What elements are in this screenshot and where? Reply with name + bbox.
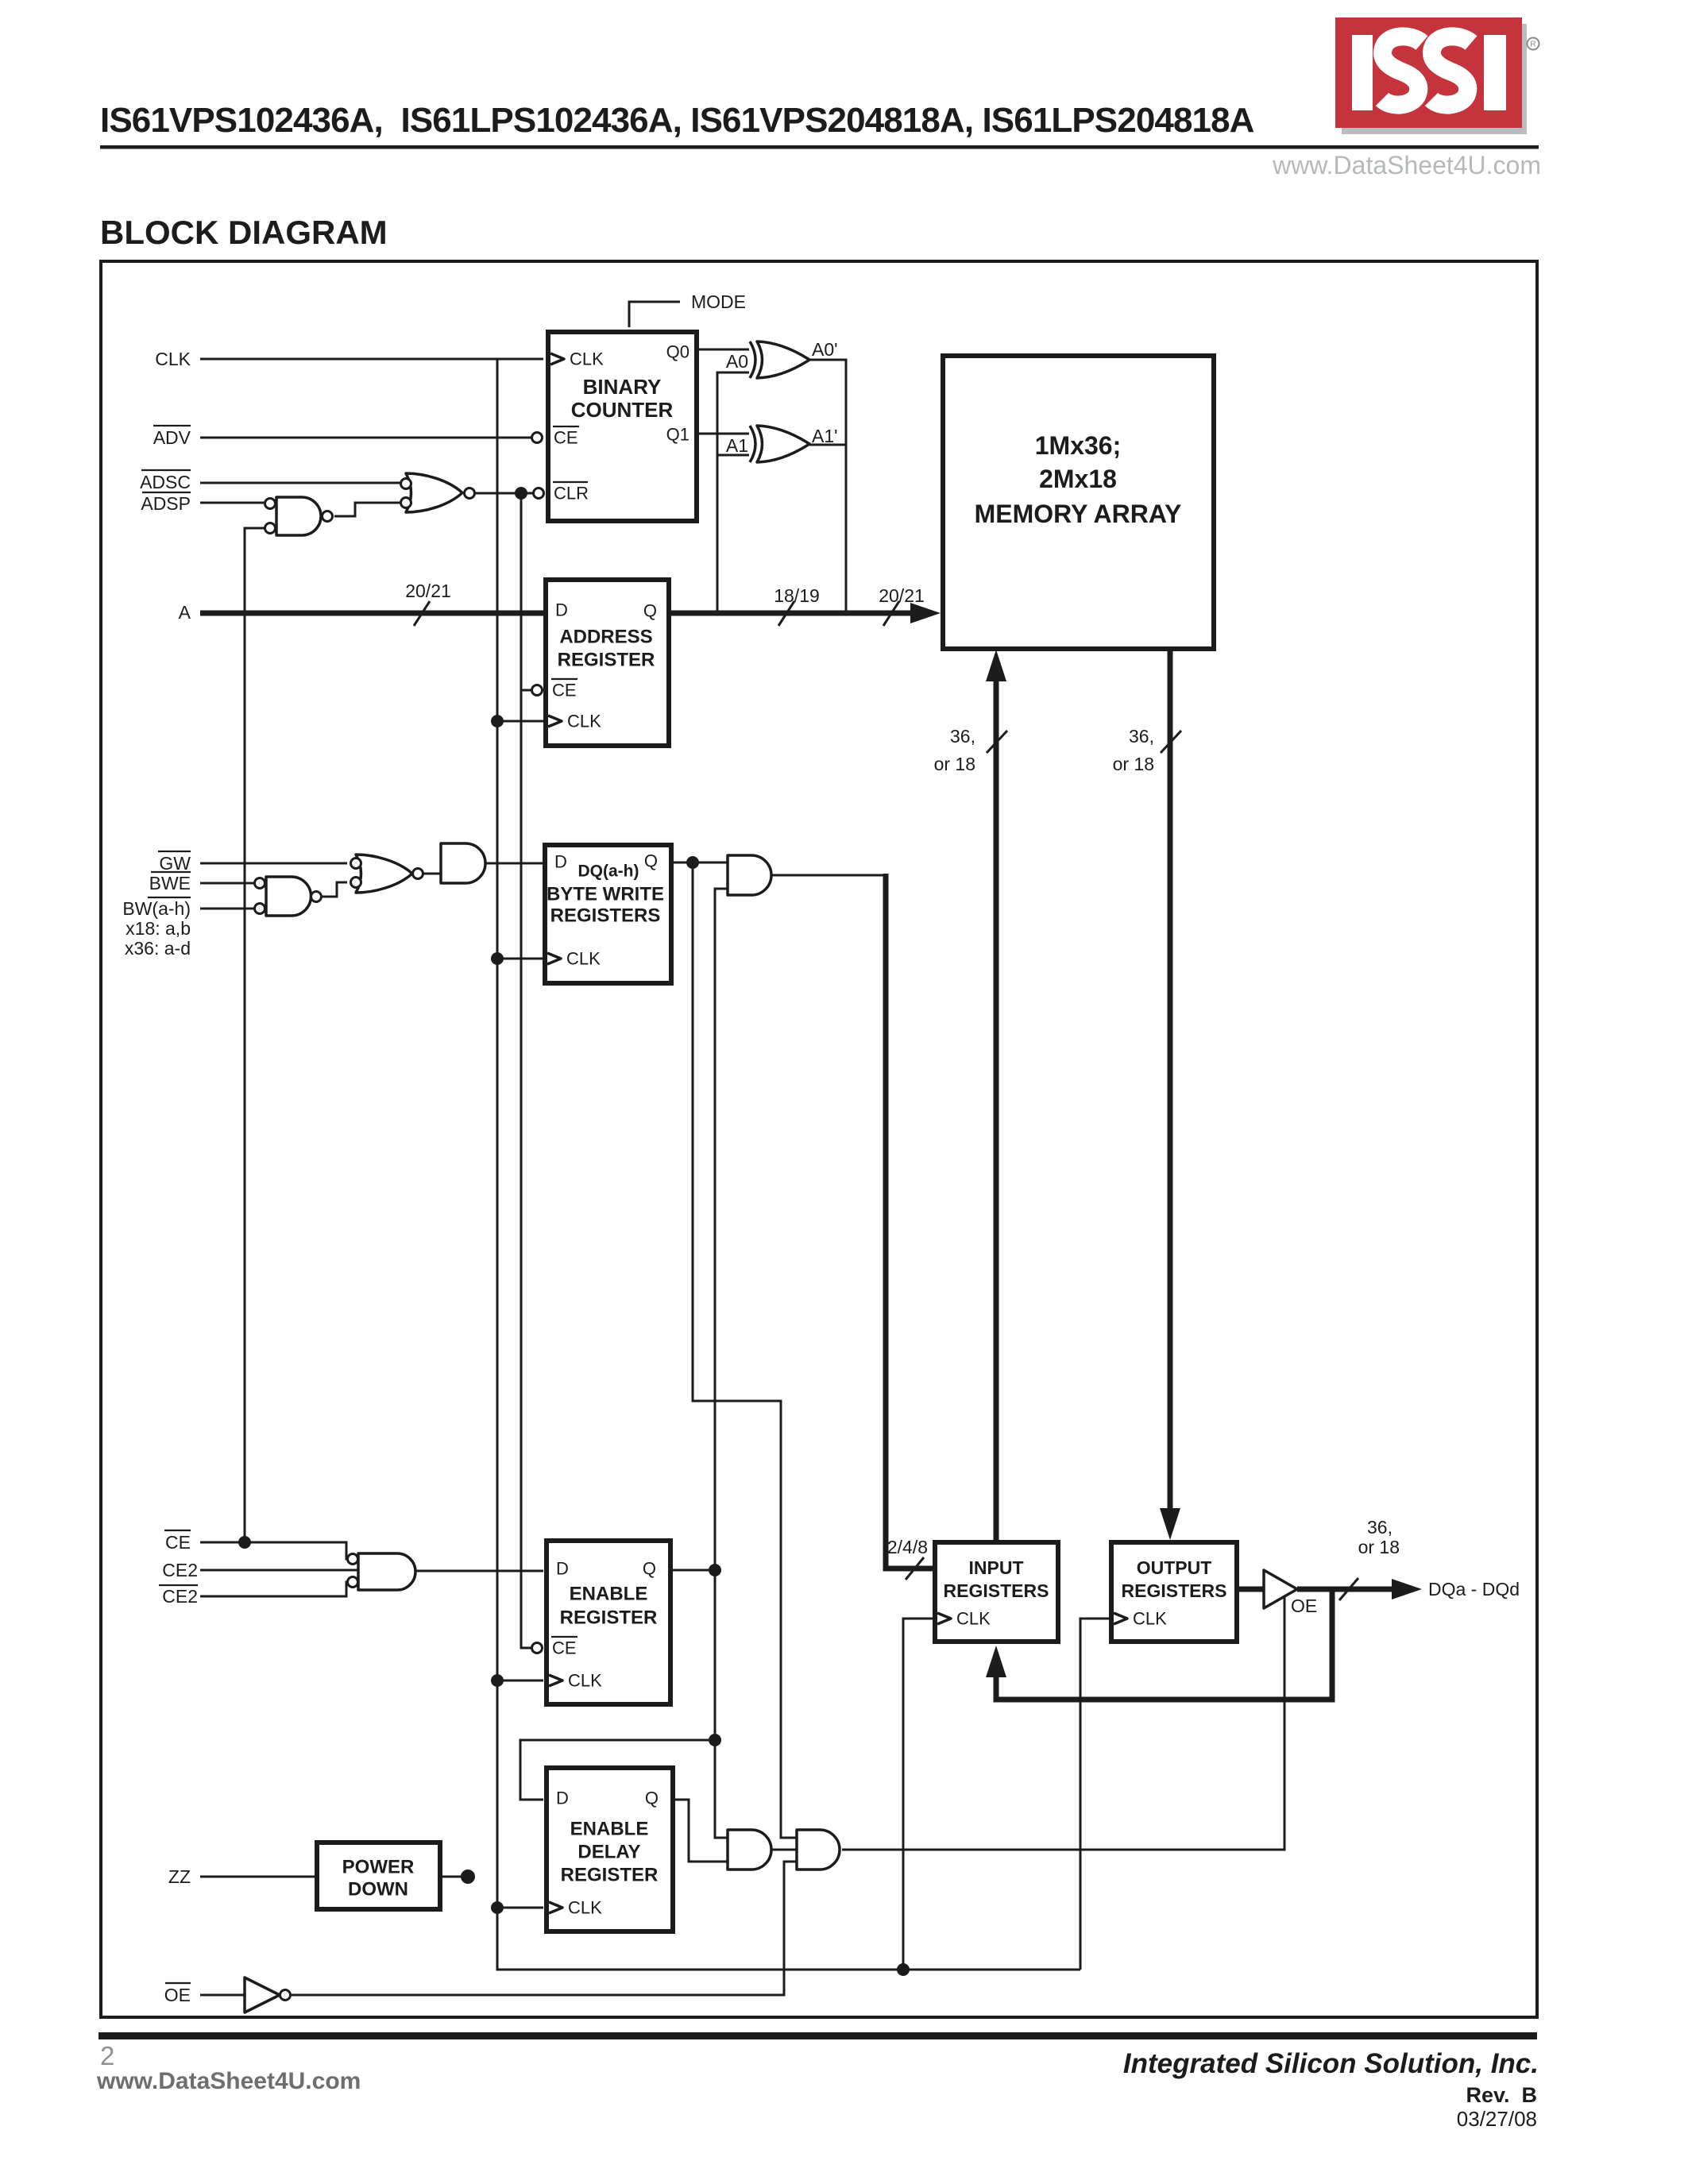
- svg-text:A: A: [179, 602, 191, 623]
- svg-text:BINARY: BINARY: [583, 375, 662, 399]
- svg-text:36,: 36,: [1129, 726, 1154, 747]
- wire BWE to NAND G3: [200, 882, 254, 885]
- svg-text:www.DataSheet4U.com: www.DataSheet4U.com: [96, 2068, 361, 2094]
- wire CLK branch to enable register: [497, 1680, 543, 1682]
- header rule: [100, 145, 1539, 149]
- bus memory to output registers: [1168, 650, 1173, 1517]
- svg-text:D: D: [556, 1788, 569, 1808]
- wire NAND G1 output to NOR G2: [334, 503, 400, 516]
- svg-text:REGISTER: REGISTER: [561, 1865, 659, 1886]
- svg-text:DQa - DQd: DQa - DQd: [1428, 1579, 1520, 1599]
- wire NAND G3 output to NOR G4: [322, 882, 347, 897]
- svg-text:GW: GW: [159, 853, 191, 874]
- clock triangle output registers: [1114, 1613, 1127, 1624]
- wire GW to NOR G4: [200, 862, 347, 865]
- arrowhead into output registers: [1160, 1508, 1180, 1540]
- svg-text:REGISTERS: REGISTERS: [1122, 1580, 1227, 1601]
- svg-text:POWER: POWER: [342, 1857, 415, 1878]
- wire CLR net vertical to enable register CE: [521, 493, 531, 1648]
- bus output registers to buffer: [1237, 1587, 1264, 1592]
- node CE junction: [238, 1536, 251, 1549]
- svg-text:DELAY: DELAY: [577, 1842, 640, 1863]
- arrowhead address bus into memory: [910, 603, 941, 623]
- arrowhead feedback into input registers: [986, 1646, 1006, 1677]
- svg-text:or 18: or 18: [1113, 754, 1154, 774]
- bus DQ feedback to input registers: [996, 1589, 1332, 1700]
- svg-text:20/21: 20/21: [879, 585, 925, 606]
- svg-text:ENABLE: ENABLE: [570, 1819, 649, 1840]
- svg-text:Q: Q: [643, 1559, 656, 1579]
- wire CLR net branch to address register CE: [521, 689, 531, 692]
- svg-text:18/19: 18/19: [774, 585, 820, 606]
- wire CLK branch to byte write register: [497, 958, 543, 960]
- svg-text:OE: OE: [164, 1985, 191, 2005]
- buffer output tristate B2: [1264, 1570, 1297, 1608]
- wire AND G8 output into AND G9: [771, 1849, 797, 1851]
- svg-text:D: D: [555, 600, 568, 620]
- wire ADSC to NOR G2: [200, 482, 400, 484]
- svg-text:CLK: CLK: [566, 949, 601, 969]
- NOR gate G4 (GW): [356, 855, 412, 893]
- node clock return junction: [897, 1963, 910, 1976]
- slash output bus: [1161, 731, 1181, 753]
- wire Q1 to XOR2: [699, 433, 749, 435]
- wire CLK vertical bus: [497, 359, 1080, 1970]
- NAND gate G6 (CE/CE2): [358, 1553, 415, 1590]
- memory array U4: [943, 356, 1214, 649]
- AND gate G7 (write enable): [728, 855, 771, 895]
- wire XOR1 output: [809, 360, 846, 612]
- svg-text:or 18: or 18: [1358, 1537, 1400, 1557]
- node byte write Q junction: [686, 856, 699, 869]
- svg-text:INPUT: INPUT: [969, 1557, 1024, 1578]
- arrowhead into memory bottom: [986, 650, 1006, 681]
- wire CE2b input: [200, 1582, 350, 1596]
- svg-text:or 18: or 18: [934, 754, 975, 774]
- AND gate G8: [728, 1830, 771, 1870]
- node enable delay D junction: [709, 1734, 721, 1746]
- ISSI registered mark: [1528, 38, 1539, 50]
- bus byte write enable 2/4/8 down to input registers: [886, 874, 933, 1569]
- wire NAND G6 output to enable register D: [415, 1570, 543, 1572]
- footer thick rule: [98, 2032, 1537, 2039]
- ISSI logo red box: [1335, 17, 1522, 128]
- wire enable delay Q to AND G8: [673, 1800, 728, 1862]
- wire ADSP to NAND G1: [200, 502, 265, 504]
- svg-text:CE: CE: [552, 681, 577, 700]
- svg-text:CE: CE: [552, 1638, 577, 1658]
- svg-text:D: D: [556, 1559, 569, 1579]
- svg-text:Q: Q: [644, 851, 658, 871]
- svg-text:x36: a-d: x36: a-d: [125, 938, 191, 959]
- svg-text:IS61VPS102436A, IS61LPS102436: IS61VPS102436A, IS61LPS102436A, IS61VPS2…: [100, 101, 1254, 140]
- svg-text:CLR: CLR: [554, 484, 589, 504]
- svg-text:ADDRESS: ADDRESS: [559, 627, 652, 648]
- svg-text:ZZ: ZZ: [168, 1866, 191, 1887]
- pin CLR binary counter: [534, 488, 544, 499]
- wire clock return to input registers CLK: [903, 1619, 933, 1970]
- node addr CLK junction: [491, 715, 504, 727]
- svg-text:x18: a,b: x18: a,b: [126, 918, 191, 939]
- svg-text:20/21: 20/21: [405, 581, 451, 601]
- svg-text:CE: CE: [165, 1532, 191, 1553]
- svg-text:36,: 36,: [950, 726, 975, 747]
- svg-text:Q1: Q1: [666, 425, 689, 445]
- wire enable register Q net vertical: [715, 889, 728, 1838]
- svg-text:2: 2: [100, 2041, 114, 2070]
- svg-text:03/27/08: 03/27/08: [1457, 2107, 1537, 2131]
- ISSI logo letter S1: [1382, 37, 1422, 105]
- svg-text:BLOCK DIAGRAM: BLOCK DIAGRAM: [100, 214, 388, 251]
- svg-text:ADV: ADV: [153, 427, 191, 448]
- svg-text:CLK: CLK: [1133, 1609, 1167, 1629]
- svg-text:CE2: CE2: [162, 1560, 198, 1580]
- node byte CLK junction: [491, 952, 504, 965]
- XOR gate X1: [750, 341, 809, 378]
- svg-text:DQ(a-h): DQ(a-h): [578, 862, 639, 881]
- clock triangle binary counter: [550, 353, 564, 365]
- svg-text:Q: Q: [645, 1788, 659, 1808]
- wire CLK branch to enable delay register: [497, 1907, 543, 1909]
- ISSI logo letter S2: [1431, 37, 1471, 105]
- wire OE input: [200, 1994, 245, 1997]
- wire CE input: [200, 1542, 350, 1559]
- wire enable register Q to enable delay D: [520, 1740, 715, 1800]
- slash 18/19: [778, 601, 794, 626]
- diagram outer border: [101, 261, 1537, 2017]
- slash DQ bus: [1339, 1578, 1358, 1600]
- svg-text:Rev. B: Rev. B: [1466, 2083, 1537, 2107]
- svg-text:1Mx36;: 1Mx36;: [1035, 431, 1122, 460]
- output registers U9: [1111, 1542, 1237, 1642]
- svg-text:A1: A1: [726, 435, 748, 456]
- wire ZZ input: [200, 1876, 315, 1878]
- address register U2: [546, 580, 669, 746]
- svg-text:ADSP: ADSP: [141, 493, 191, 514]
- pin CE address register: [532, 685, 543, 696]
- svg-text:ENABLE: ENABLE: [570, 1584, 648, 1605]
- node enable reg Q junction: [709, 1564, 721, 1576]
- svg-text:ADSC: ADSC: [140, 472, 191, 492]
- wire addr bus continues right of address register: [670, 611, 914, 616]
- svg-text:www.DataSheet4U.com: www.DataSheet4U.com: [1272, 151, 1541, 179]
- svg-text:CLK: CLK: [956, 1609, 991, 1629]
- svg-text:COUNTER: COUNTER: [571, 398, 674, 422]
- wire AND G9 output to output buffer enable: [842, 1595, 1284, 1850]
- svg-text:DOWN: DOWN: [348, 1879, 408, 1900]
- node power down stub end: [461, 1870, 475, 1884]
- svg-text:CE2: CE2: [162, 1586, 198, 1607]
- clock triangle address register: [548, 716, 562, 727]
- node enable delay CLK junction: [491, 1901, 504, 1914]
- node CLR junction: [515, 487, 527, 500]
- slash 20/21 second: [883, 601, 899, 626]
- wire NOR G2 output to counter CLR: [475, 492, 533, 495]
- wire BW(a-h) to NAND G3: [200, 908, 254, 910]
- svg-text:D: D: [554, 852, 567, 872]
- binary counter U1: [548, 332, 697, 521]
- input registers U8: [935, 1542, 1058, 1642]
- wire A feedback stub to XOR2: [717, 454, 749, 457]
- bus DQ output: [1297, 1587, 1395, 1592]
- byte write registers U3: [545, 845, 671, 983]
- wire byte write Q to AND G7: [671, 862, 728, 864]
- svg-text:CLK: CLK: [568, 1671, 602, 1691]
- clock triangle enable delay: [549, 1902, 562, 1913]
- svg-text:BYTE WRITE: BYTE WRITE: [547, 884, 664, 905]
- wire CE2 input: [200, 1569, 358, 1572]
- wire AND G5 output to byte write D: [485, 862, 543, 865]
- svg-text:OE: OE: [1291, 1596, 1317, 1616]
- clock triangle enable register: [549, 1675, 562, 1686]
- svg-text:BWE: BWE: [149, 873, 191, 893]
- svg-text:REGISTER: REGISTER: [558, 650, 655, 671]
- NAND gate G3 (BWE/BW): [266, 877, 311, 916]
- buffer OE input B1: [245, 1978, 280, 2012]
- clock triangle input registers: [937, 1613, 951, 1624]
- svg-text:BW(a-h): BW(a-h): [122, 898, 191, 919]
- wire CLK branch to address register: [497, 720, 543, 723]
- svg-text:MODE: MODE: [691, 291, 746, 312]
- power down block U7: [317, 1843, 440, 1909]
- node enable CLK junction: [491, 1674, 504, 1687]
- enable register U5: [547, 1541, 670, 1704]
- svg-text:Q0: Q0: [666, 342, 689, 362]
- svg-text:R: R: [1530, 41, 1535, 49]
- wire OE buffer output to AND G9: [291, 1862, 797, 1995]
- wire address bus A: [200, 611, 914, 616]
- wire byte write Q down to AND G9: [693, 862, 797, 1838]
- svg-text:Q: Q: [643, 601, 657, 621]
- wire CLK input: [200, 358, 543, 361]
- svg-text:A0: A0: [726, 351, 748, 372]
- svg-text:CLK: CLK: [568, 1898, 602, 1918]
- svg-text:REGISTER: REGISTER: [560, 1607, 658, 1629]
- XOR gate X2: [750, 426, 809, 462]
- ISSI logo shadow: [1342, 24, 1527, 134]
- slash 20/21 first: [414, 601, 430, 626]
- svg-text:OUTPUT: OUTPUT: [1137, 1557, 1212, 1578]
- enable delay register U6: [547, 1768, 673, 1931]
- svg-text:36,: 36,: [1367, 1517, 1393, 1538]
- svg-text:2/4/8: 2/4/8: [887, 1537, 928, 1557]
- pin CE enable register: [532, 1643, 543, 1653]
- svg-text:A1': A1': [812, 426, 838, 446]
- wire A feedback vertical to XOR inputs: [717, 372, 749, 612]
- svg-text:REGISTERS: REGISTERS: [550, 905, 661, 927]
- NAND gate G1 (ADSP): [276, 497, 321, 535]
- wire MODE: [629, 302, 680, 327]
- AND gate G9: [797, 1830, 840, 1870]
- ISSI logo letter I2: [1484, 35, 1506, 110]
- svg-text:MEMORY ARRAY: MEMORY ARRAY: [975, 500, 1182, 528]
- svg-text:CE: CE: [554, 428, 578, 448]
- wire XOR2 output: [809, 444, 846, 446]
- svg-text:CLK: CLK: [567, 712, 601, 731]
- wire NAND G1 second input from CE net: [245, 528, 265, 1542]
- pin CE binary counter: [532, 433, 543, 443]
- svg-text:A0': A0': [812, 339, 838, 360]
- wire NOR G4 output to AND G5: [416, 873, 441, 875]
- wire AND G7 output: [771, 874, 886, 877]
- svg-text:2Mx18: 2Mx18: [1039, 465, 1117, 493]
- wire Q0 to XOR1: [699, 349, 749, 351]
- svg-text:CLK: CLK: [155, 349, 191, 369]
- slash 2/4/8 bus: [906, 1557, 924, 1580]
- clock triangle byte write: [547, 953, 561, 964]
- svg-text:Integrated Silicon Solution, I: Integrated Silicon Solution, Inc.: [1123, 2048, 1539, 2079]
- wire enable register Q: [670, 1569, 715, 1572]
- svg-text:CLK: CLK: [570, 349, 604, 369]
- wire ADV to counter CE: [200, 437, 531, 439]
- wire clock return to output registers CLK: [1080, 1619, 1109, 1970]
- slash input bus: [987, 731, 1007, 753]
- arrowhead DQ: [1392, 1579, 1422, 1599]
- wire power down output stub: [442, 1876, 462, 1878]
- svg-text:REGISTERS: REGISTERS: [944, 1580, 1049, 1601]
- bus input registers to memory: [994, 675, 999, 1540]
- ISSI logo letter I1: [1352, 35, 1373, 110]
- AND gate G5: [441, 843, 485, 883]
- NOR gate G2 (ADSC): [406, 473, 462, 512]
